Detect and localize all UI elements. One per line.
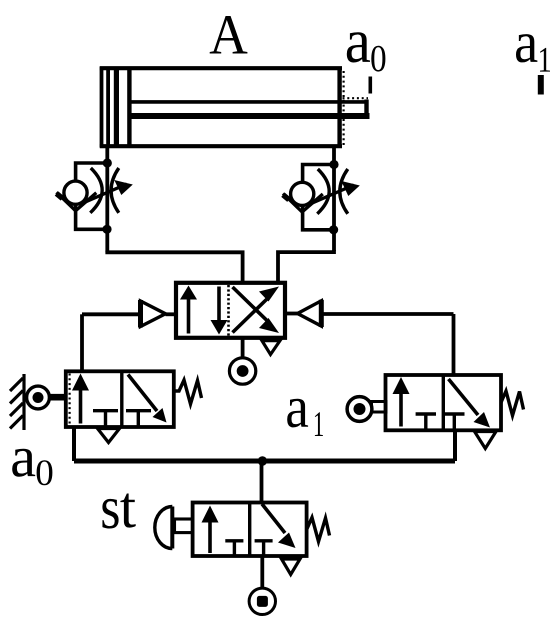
valve a1 divider <box>442 376 445 429</box>
label a0 bottom - a <box>12 449 35 477</box>
valve st 3/2 body <box>193 503 307 557</box>
valve st push button <box>155 507 193 549</box>
label st - s <box>102 499 118 529</box>
valve a0 spring <box>174 380 202 404</box>
wire a0 supply to bus <box>72 427 76 461</box>
cylinder A body <box>100 67 342 148</box>
wire cylinder left port <box>105 146 109 163</box>
wire pilot left down to a0 valve <box>80 314 84 371</box>
valve a1 3/2 body <box>386 375 502 430</box>
valve a0 T block left <box>93 411 118 426</box>
valve a0 wall mount <box>10 374 24 430</box>
valve V1 cross arrow down-right <box>233 287 280 333</box>
valve V1 4/2 body <box>176 283 285 338</box>
cylinder end dashed marker <box>343 71 369 145</box>
valve V1 divider dotted <box>227 285 230 336</box>
valve a0 roller <box>27 386 66 409</box>
wire a1 supply to bus <box>453 430 457 461</box>
throttle arcs right <box>317 169 348 214</box>
flow control valve left: main line <box>105 163 109 252</box>
valve a1 spring <box>501 391 524 416</box>
valve a1 T block right <box>444 414 465 429</box>
check valve ball right <box>291 182 314 205</box>
wire pilot right down to a1 valve <box>452 314 456 375</box>
label a1 mid - 1 <box>315 412 323 436</box>
check valve seat left <box>57 192 97 211</box>
valve a1 exhaust triangle <box>475 432 497 449</box>
label a0 top - a <box>347 32 370 62</box>
label a0 bottom - 0 <box>37 460 53 485</box>
valve a0 exhaust triangle <box>98 429 120 443</box>
flow control valve left: bypass loop <box>76 163 108 229</box>
air source under V1 <box>229 358 255 384</box>
valve V1 down arrow <box>211 287 228 335</box>
valve a1 roller <box>347 397 386 422</box>
supply bus wire <box>74 459 455 464</box>
throttle adjust arrow left <box>82 180 133 204</box>
label a1 topright - a <box>516 34 537 62</box>
valve a0 up arrow <box>72 374 89 424</box>
cylinder piston lines <box>108 68 129 146</box>
label a1 mid - a <box>287 399 308 428</box>
valve st exhaust triangle <box>282 559 301 575</box>
valve V1 up arrow <box>180 286 197 334</box>
valve st T block right <box>255 541 273 555</box>
label A <box>210 16 248 54</box>
node: left FC top junction <box>103 158 112 167</box>
valve a1 up arrow <box>393 377 410 427</box>
exhaust triangle V1 <box>262 341 280 355</box>
flow control valve right: bypass loop <box>303 165 334 230</box>
throttle adjust arrow right <box>309 181 360 205</box>
valve V1 pilot left triangle <box>82 300 176 328</box>
valve a0 left edge dots <box>68 374 70 426</box>
valve a0 T block right <box>126 411 151 426</box>
valve V1 cross arrow up-right <box>233 287 280 333</box>
node: left FC bottom junction <box>102 225 111 234</box>
valve a0 diagonal arrow <box>128 375 167 423</box>
valve a0 3/2 body <box>66 371 174 427</box>
wire left FC to valve port <box>107 251 242 285</box>
wire st to source <box>260 556 264 589</box>
throttle arcs left <box>90 168 119 213</box>
valve V1 bottom supply stub <box>241 337 245 358</box>
valve V1 pilot right triangle <box>285 300 454 327</box>
flow control valve right: main line <box>332 165 336 252</box>
check valve seat right <box>283 194 323 213</box>
wire st valve to bus <box>260 461 264 503</box>
valve a0 divider <box>120 373 123 426</box>
valve a1 diagonal arrow <box>449 379 491 428</box>
valve st up arrow <box>202 506 219 554</box>
valve st T block left <box>225 541 243 555</box>
tick mark a1 <box>538 75 544 95</box>
tick mark a0 <box>368 77 372 94</box>
node: right FC bottom junction <box>329 225 338 234</box>
piston rod <box>131 100 370 119</box>
wire right FC to valve port <box>278 250 334 284</box>
valve st spring <box>307 518 330 542</box>
label a1 topright - 1 <box>540 48 550 72</box>
valve st divider <box>248 503 251 555</box>
wire cylinder right port <box>332 146 336 165</box>
label a0 top - 0 <box>371 46 385 72</box>
check valve ball left <box>64 181 87 204</box>
valve a1 T block left <box>416 414 436 429</box>
valve st diagonal arrow <box>262 504 296 548</box>
node: right FC top junction <box>329 160 338 169</box>
node: bus junction at st <box>258 456 267 465</box>
air source under st <box>249 588 275 614</box>
label st - t <box>120 494 135 528</box>
